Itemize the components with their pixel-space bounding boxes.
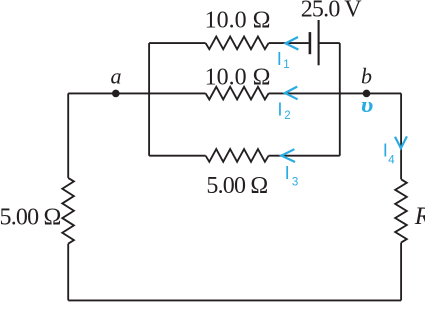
svg-text:5.00 Ω: 5.00 Ω [206, 173, 267, 199]
current arrow I4 (down) [395, 136, 407, 148]
wire: bottom outer horizontal [68, 299, 401, 301]
wire: right outer vertical lower [400, 243, 402, 301]
node b junction dot [363, 90, 371, 98]
svg-text:I: I [383, 140, 388, 161]
wire: top branch to battery [269, 42, 309, 44]
wire: top branch left segment [149, 42, 206, 44]
svg-text:b: b [361, 63, 372, 88]
wire: bottom inner branch right segment [269, 155, 340, 157]
svg-text:2: 2 [284, 110, 290, 122]
svg-text:10.0 Ω: 10.0 Ω [205, 8, 271, 34]
wire: middle branch left segment (a side) [68, 92, 205, 94]
svg-text:R: R [414, 203, 425, 230]
current arrow I2 (left) [285, 87, 298, 100]
battery 25.0 V positive plate (long) [318, 20, 320, 65]
resistor 5.00 ohm left vertical [62, 178, 74, 244]
resistor R right vertical [395, 179, 407, 242]
svg-text:υ: υ [361, 92, 374, 117]
wire: left outer vertical upper [67, 93, 69, 177]
svg-text:5.00 Ω: 5.00 Ω [0, 204, 61, 230]
wire: inner left vertical [148, 43, 150, 156]
svg-text:I: I [277, 48, 282, 69]
wire: inner right vertical [339, 43, 341, 156]
resistor 10.0 ohm top branch [206, 37, 269, 50]
svg-text:4: 4 [388, 155, 395, 167]
svg-text:I: I [277, 99, 282, 120]
wire: right outer vertical upper [400, 93, 402, 179]
resistor 5.00 ohm bottom inner branch [206, 149, 269, 162]
resistor 10.0 ohm middle branch [206, 87, 269, 100]
svg-text:1: 1 [283, 59, 289, 71]
battery 25.0 V negative plate (short) [309, 32, 312, 54]
wire: middle branch right segment (b side) [269, 92, 402, 94]
wire: left outer vertical lower [67, 244, 69, 301]
current arrow I1 (left) [286, 37, 299, 50]
node a junction dot [112, 90, 120, 98]
current arrow I3 (left) [281, 149, 295, 162]
wire: bottom inner branch left segment [149, 155, 206, 157]
svg-text:I: I [285, 162, 290, 183]
svg-text:3: 3 [292, 177, 298, 189]
svg-text:25.0 V: 25.0 V [301, 0, 363, 23]
svg-text:a: a [111, 64, 122, 89]
svg-text:10.0 Ω: 10.0 Ω [205, 65, 271, 91]
wire: battery to inner right corner [319, 42, 340, 44]
